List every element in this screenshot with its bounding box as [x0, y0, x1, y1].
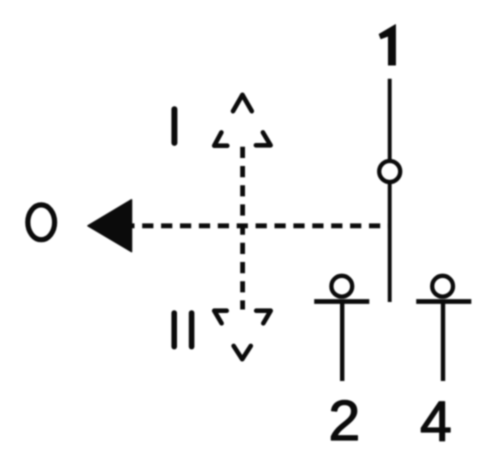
contact 4 circle [432, 276, 453, 297]
svg-text:4: 4 [420, 390, 452, 454]
contact 2 bar [314, 299, 369, 304]
svg-text:2: 2 [328, 389, 360, 453]
up arrowhead (dashed triangle, direction I) [214, 95, 270, 146]
wire: horizontal dashed line O to pole [130, 223, 390, 228]
actuator arrow (solid left triangle) [88, 200, 132, 252]
contact 2 circle [331, 276, 352, 297]
node O (position label) [28, 205, 55, 240]
wire: terminal 4 stem [441, 302, 445, 382]
node II (position label) [174, 313, 191, 347]
contact 4 bar [416, 299, 471, 304]
contact circle on pole 1 [379, 161, 400, 182]
wire: pole 1 lower segment [388, 184, 392, 302]
down arrowhead (dashed triangle, direction II) [214, 311, 271, 360]
node I (position label) [171, 109, 177, 143]
wire: pole 1 upper segment [388, 79, 392, 160]
wire: terminal 2 stem [340, 302, 344, 382]
wire: vertical dashed line I to II [240, 147, 245, 310]
terminal 1 label [379, 25, 395, 65]
